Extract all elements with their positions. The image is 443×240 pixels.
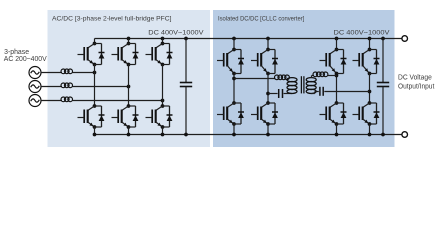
label DC bus 1 voltage	[148, 29, 204, 36]
wire leg C to bottom rail	[161, 127, 165, 136]
label AC/DC title	[52, 15, 172, 22]
AC source V1	[29, 67, 41, 79]
label DC Voltage	[398, 73, 432, 82]
transistor Q11 (CLLC bridge top)	[320, 37, 347, 76]
label 3-phase	[4, 47, 29, 56]
wire bridge B midpoint to resonant capacitor	[268, 93, 278, 95]
transformer T1 primary winding	[287, 78, 297, 94]
terminal DC output +	[402, 36, 408, 42]
wire CLLC leg 1 midsection	[232, 74, 236, 99]
wire leg A midsection	[94, 65, 96, 102]
label Output/Input	[398, 82, 435, 91]
transistor Q2 (PFC top leg B)	[112, 37, 139, 67]
transistor Q6 (PFC bottom leg C)	[146, 101, 173, 129]
AC source V2	[29, 81, 41, 93]
wire CLLC leg 2 to bottom rail	[266, 124, 270, 136]
transistor Q13 (CLLC bridge bottom)	[320, 98, 347, 126]
transistor Q14 (CLLC bridge bottom)	[353, 98, 380, 126]
transformer T1 secondary winding	[306, 78, 316, 94]
svg-text:DC 400V~1000V: DC 400V~1000V	[334, 29, 391, 36]
wire phase C to leg	[73, 100, 163, 102]
Isolated DC/DC stage block	[213, 10, 395, 147]
capacitor C1 (DC link)	[180, 37, 192, 137]
wire CLLC leg 3 midsection	[335, 74, 339, 99]
wire phase A to leg	[73, 72, 95, 74]
svg-text:DC 400V~1000V: DC 400V~1000V	[148, 29, 204, 36]
inductor L3	[61, 97, 73, 102]
inductor Lr1 (resonant)	[275, 75, 290, 80]
wire leg A to bottom rail	[93, 127, 97, 136]
AC/DC PFC stage block	[48, 10, 211, 147]
wire leg B to bottom rail	[127, 127, 131, 136]
wire phase C from source	[41, 100, 62, 102]
wire Lr2 to bridge C midpoint	[328, 75, 337, 77]
node phase B junction	[127, 85, 131, 89]
transistor Q10 (CLLC bridge bottom)	[251, 98, 278, 126]
wire Lr1 to transformer primary	[288, 78, 290, 80]
transistor Q4 (PFC bottom leg A)	[78, 101, 105, 129]
wire CLLC leg 4 to bottom rail	[368, 124, 372, 136]
wire transformer secondary to Lr2	[312, 76, 315, 79]
transistor Q9 (CLLC bridge bottom)	[217, 98, 244, 126]
svg-text:AC 200~400V: AC 200~400V	[4, 54, 48, 63]
inductor L1	[61, 69, 73, 74]
wire DC- bottom rail	[95, 134, 402, 136]
label DC/DC title	[218, 15, 304, 22]
wire CLLC leg 4 midsection	[368, 74, 372, 99]
svg-text:Isolated DC/DC [CLLC converter: Isolated DC/DC [CLLC converter]	[218, 15, 304, 22]
wire phase B from source	[41, 86, 62, 88]
wire CLLC leg 3 to bottom rail	[335, 124, 339, 136]
wire CLLC leg 2 midsection	[266, 74, 270, 99]
terminal DC output -	[402, 132, 408, 138]
node phase C junction	[161, 99, 165, 103]
AC source V3	[29, 95, 41, 107]
transistor Q1 (PFC top leg A)	[78, 39, 105, 67]
inductor Lr2 (resonant)	[313, 72, 328, 77]
capacitor Cr2 (resonant)	[320, 87, 323, 96]
wire Cr1 to transformer primary bottom	[284, 93, 292, 95]
node phase A junction	[93, 71, 97, 75]
wire DC+ top rail	[95, 38, 402, 40]
transformer T1 core	[301, 76, 304, 93]
svg-text:Output/Input: Output/Input	[398, 82, 435, 91]
transistor Q3 (PFC top leg C)	[146, 37, 173, 67]
wire Cr2 to bridge D midpoint	[324, 91, 369, 93]
transistor Q8 (CLLC bridge top)	[251, 37, 278, 76]
wire bridge A midpoint to resonant inductor	[234, 78, 276, 80]
wire leg C midsection	[162, 65, 164, 102]
svg-text:AC/DC [3-phase 2-level full-br: AC/DC [3-phase 2-level full-bridge PFC]	[52, 15, 172, 22]
capacitor Cr1 (resonant)	[279, 89, 283, 98]
wire CLLC leg 1 to bottom rail	[232, 124, 236, 136]
transistor Q12 (CLLC bridge top)	[353, 37, 380, 76]
inductor L2	[61, 83, 73, 88]
wire phase B to leg	[73, 86, 129, 88]
transistor Q5 (PFC bottom leg B)	[112, 101, 139, 129]
label DC bus 2 voltage	[334, 29, 391, 36]
wire transformer secondary bottom to Cr2	[311, 92, 319, 94]
wire leg B midsection	[128, 65, 130, 102]
capacitor C2 (DC link)	[377, 37, 389, 137]
label AC 200~400V	[4, 54, 48, 63]
transistor Q7 (CLLC bridge top)	[217, 37, 244, 76]
wire phase A from source	[41, 72, 62, 74]
svg-text:DC Voltage: DC Voltage	[398, 73, 432, 82]
